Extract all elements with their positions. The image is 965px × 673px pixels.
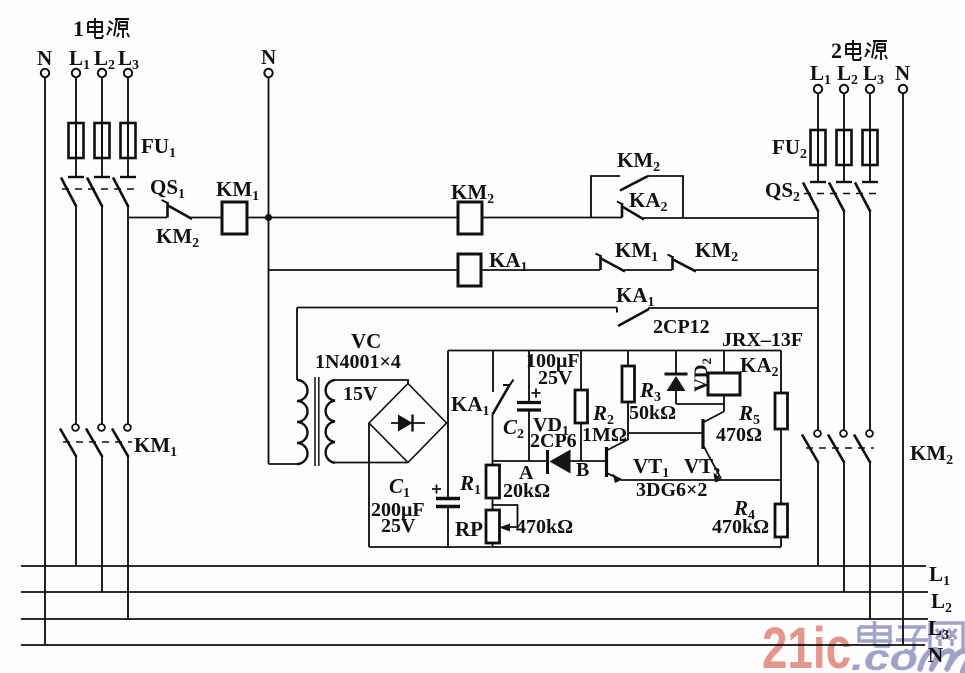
resistor R2: [580, 351, 582, 391]
contactor KM2 main pole1: [814, 430, 821, 437]
contact KA1 blade: [493, 385, 510, 415]
RP wiper arrow: [493, 505, 518, 527]
wire secondary bottom to bridge: [335, 462, 408, 464]
fuse FU1-b: [95, 123, 110, 158]
源 glyph: [865, 41, 887, 60]
KM2 main pole2: [840, 430, 847, 437]
diode VD2: [675, 351, 677, 375]
svg-text:21ic: 21ic: [762, 616, 851, 673]
源 glyph: [107, 19, 129, 38]
wires QS2 outputs down: [818, 212, 870, 430]
node A wire: [493, 460, 548, 462]
wire: [482, 217, 622, 219]
wire N middle column: [268, 77, 270, 464]
plus sign C2: [532, 389, 541, 398]
switch QS2 pole1: [810, 181, 826, 183]
wire secondary top to bridge: [335, 380, 408, 384]
transformer primary winding: [297, 380, 308, 464]
node junction dot: [265, 214, 272, 221]
bus L1: [21, 565, 926, 567]
wire KM2 pole3 to L3 bus: [869, 463, 871, 619]
resistor R3: [627, 351, 629, 367]
switch QS1 pole1: [68, 176, 84, 178]
KM1 main pole3: [124, 424, 131, 431]
transformer secondary winding: [326, 380, 335, 463]
wire L3 drop to fuse: [127, 77, 129, 123]
wire N column left: [44, 77, 46, 645]
wire line1 to KM2 coil: [269, 217, 459, 219]
watermark 电 glyph outline: [859, 621, 963, 653]
wire: [481, 269, 600, 271]
wire N column right: [902, 93, 904, 645]
capacitor C2: [517, 401, 541, 404]
wire N column corner to primary: [269, 463, 298, 465]
wire VD2 anode to VT2 collector: [676, 403, 724, 405]
transistor VT2: [701, 419, 704, 449]
wire bridge plus to module left column: [447, 351, 449, 498]
resistor R1: [492, 461, 494, 465]
label 1电源: [73, 16, 129, 41]
bridge inner diode: [391, 422, 425, 424]
resistor R5: [780, 351, 782, 394]
wire KM1 pole2 to L2 bus: [101, 457, 103, 592]
relay coil KA1: [458, 254, 481, 286]
relay coil KA2: [723, 351, 725, 374]
bus L2: [21, 591, 928, 593]
wire line1 right: [643, 217, 818, 219]
wire R1 to RP: [492, 498, 494, 510]
wire RP bottom: [492, 543, 494, 547]
switch QS2 pole3: [862, 181, 878, 183]
fuse FU2-a: [811, 130, 826, 165]
transistor VT1: [605, 447, 608, 477]
bus N: [21, 644, 925, 646]
wire KM2 pole1 to L1 bus: [817, 463, 819, 566]
wire line3 right: [648, 307, 818, 309]
plus sign C1: [432, 485, 441, 494]
KM1 main pole2: [98, 424, 105, 431]
transformer core: [315, 377, 319, 466]
wire QS1 pole outputs down: [76, 207, 128, 424]
wire line1 from QS1 pole3: [128, 217, 167, 219]
module bottom rail: [369, 546, 781, 548]
电 glyph: [88, 18, 103, 38]
KM2 main linkage dashed: [806, 447, 874, 449]
wires L drops to FU2: [818, 93, 870, 130]
fuse FU2-c: [863, 130, 878, 165]
wire KA1 to node A: [492, 415, 494, 462]
KM2 main pole3: [866, 430, 873, 437]
transformer VC primary riser: [296, 308, 298, 381]
wire VT1 collector to VT2 base: [628, 432, 703, 434]
resistor R4: [780, 480, 782, 504]
wire: [624, 269, 672, 271]
wire L1 drop to fuse: [75, 77, 77, 123]
wire KM1 pole3 to L3 bus: [127, 457, 129, 619]
switch QS2 pole2: [836, 181, 852, 183]
wire KM1 pole1 to L1 bus: [75, 457, 77, 566]
switch QS1 pole3: [120, 176, 136, 178]
emitter rail: [621, 479, 781, 481]
contact KA1 NO (module) riser: [492, 351, 494, 393]
wire line2 right: [695, 269, 818, 271]
fuse FU1-a: [69, 123, 84, 158]
QS2 linkage dashed: [804, 193, 876, 195]
电 glyph: [846, 40, 861, 60]
fuse FU2-b: [837, 130, 852, 165]
potentiometer RP: [486, 510, 500, 543]
wire: [247, 217, 268, 219]
module top rail: [448, 350, 781, 352]
capacitor C1: [436, 497, 460, 500]
QS1 linkage dashed: [62, 188, 134, 190]
watermark 网 glyph outline: [930, 623, 963, 650]
wires fuse bottoms: [818, 165, 870, 182]
switch QS1 pole2: [94, 176, 110, 178]
watermark script m: [920, 650, 965, 673]
bridge rectifier diamond: [369, 384, 447, 463]
wire KM2 pole2 to L2 bus: [843, 463, 845, 592]
diode VD1 (2CP6): [546, 450, 549, 474]
wire: [191, 217, 222, 219]
watermark 子 glyph outline: [896, 627, 928, 653]
wire bridge minus down to bottom rail: [368, 423, 370, 547]
KM1 main linkage dashed: [63, 441, 132, 443]
wire L2 drop to fuse: [101, 77, 103, 123]
bypass branch risers and top wire: [591, 176, 683, 218]
wire line2: [269, 269, 459, 271]
fuse FU1-c: [121, 123, 136, 158]
wire line3: [297, 307, 617, 309]
wire fuse bottoms: [76, 158, 128, 176]
label 2电源: [831, 38, 887, 63]
bus L3: [21, 618, 928, 620]
capacitor C2 riser: [528, 351, 530, 403]
contactor KM1 main contacts: pole1: [72, 424, 79, 431]
